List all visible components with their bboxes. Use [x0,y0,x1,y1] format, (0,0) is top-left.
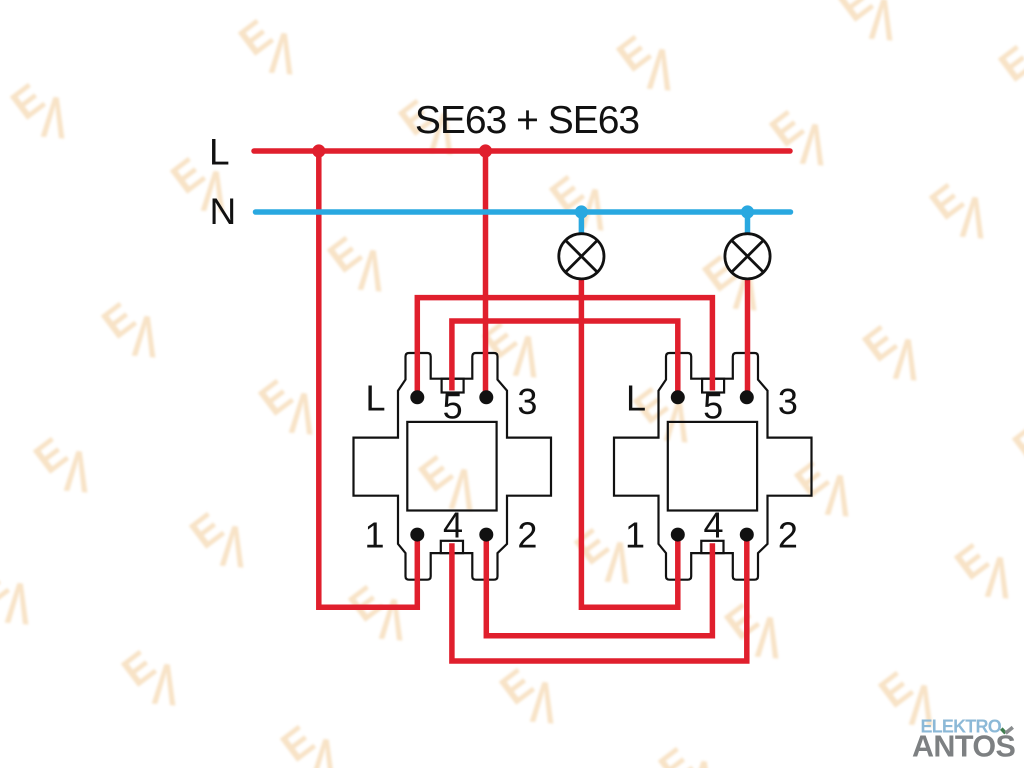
svg-text:N: N [210,191,237,232]
svg-text:ANTOS: ANTOS [912,730,1015,764]
svg-text:L: L [209,132,230,173]
svg-text:SE63 + SE63: SE63 + SE63 [415,99,639,142]
